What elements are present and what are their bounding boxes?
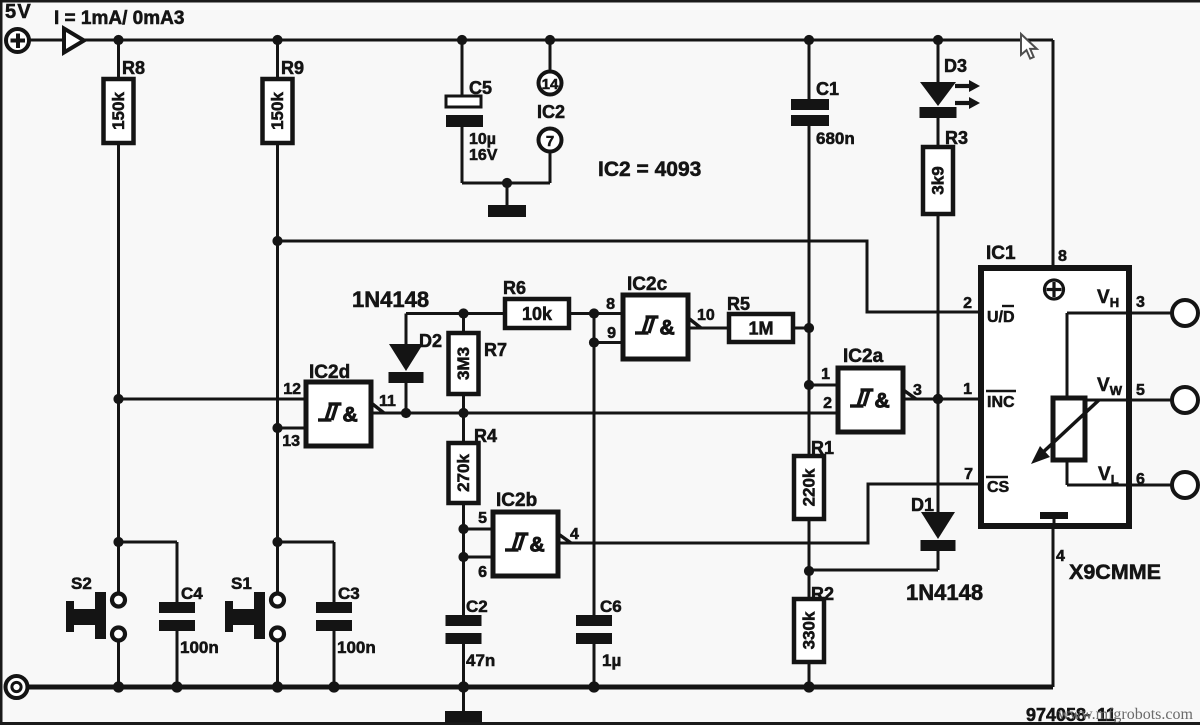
svg-text:5V: 5V	[5, 1, 32, 23]
svg-text:8: 8	[606, 296, 615, 313]
svg-text:R5: R5	[727, 294, 750, 314]
svg-text:1: 1	[963, 381, 972, 398]
svg-text:10: 10	[697, 307, 715, 324]
svg-text:3: 3	[1136, 294, 1145, 311]
svg-text:INC: INC	[987, 394, 1015, 411]
svg-text:www.mfgrobots.com: www.mfgrobots.com	[1058, 706, 1194, 723]
svg-text:D1: D1	[911, 495, 934, 515]
svg-text:IC2c: IC2c	[627, 274, 668, 295]
svg-text:47n: 47n	[466, 651, 495, 670]
svg-text:&: &	[530, 534, 545, 557]
svg-text:IC1: IC1	[986, 243, 1016, 264]
svg-text:5: 5	[478, 510, 487, 527]
svg-text:C3: C3	[338, 584, 360, 603]
svg-text:3: 3	[913, 382, 922, 399]
svg-text:3k9: 3k9	[929, 166, 948, 194]
svg-text:R3: R3	[945, 128, 968, 148]
svg-text:4: 4	[570, 526, 579, 543]
svg-text:IC2d: IC2d	[309, 362, 350, 383]
svg-text:10µ: 10µ	[469, 131, 496, 148]
svg-text:S2: S2	[71, 574, 92, 593]
svg-text:1N4148: 1N4148	[906, 580, 983, 605]
svg-text:100n: 100n	[337, 638, 376, 657]
svg-text:C5: C5	[469, 78, 492, 98]
svg-text:D3: D3	[944, 56, 967, 76]
svg-text:270k: 270k	[454, 454, 473, 492]
svg-text:S1: S1	[231, 574, 252, 593]
svg-text:R6: R6	[503, 278, 526, 298]
svg-text:16V: 16V	[469, 147, 498, 164]
svg-text:330k: 330k	[800, 611, 819, 649]
svg-text:8: 8	[1058, 248, 1067, 265]
svg-text:C6: C6	[600, 597, 622, 616]
svg-text:D2: D2	[419, 331, 442, 351]
svg-text:10k: 10k	[522, 304, 553, 324]
svg-text:6: 6	[478, 564, 487, 581]
svg-text:220k: 220k	[800, 468, 819, 506]
svg-text:12: 12	[283, 381, 301, 398]
svg-text:&: &	[660, 317, 675, 340]
svg-text:IC2a: IC2a	[843, 346, 884, 367]
svg-text:14: 14	[542, 76, 559, 93]
svg-text:&: &	[343, 404, 358, 427]
svg-text:R9: R9	[281, 58, 304, 78]
svg-text:R8: R8	[122, 58, 145, 78]
svg-text:150k: 150k	[109, 92, 128, 130]
svg-text:I = 1mA/ 0mA3: I = 1mA/ 0mA3	[54, 8, 184, 29]
svg-text:680n: 680n	[816, 129, 855, 148]
svg-text:CS: CS	[987, 479, 1010, 496]
svg-text:IC2: IC2	[537, 102, 565, 122]
svg-text:IC2 = 4093: IC2 = 4093	[598, 158, 701, 181]
svg-text:1N4148: 1N4148	[352, 287, 429, 312]
svg-text:2: 2	[963, 295, 972, 312]
svg-text:C1: C1	[816, 79, 839, 99]
svg-text:R2: R2	[811, 584, 834, 604]
svg-text:U/D: U/D	[987, 309, 1015, 326]
svg-text:C2: C2	[466, 597, 488, 616]
svg-text:3M3: 3M3	[454, 347, 473, 380]
svg-text:11: 11	[379, 393, 396, 410]
svg-text:150k: 150k	[268, 92, 287, 130]
svg-text:7: 7	[964, 466, 973, 483]
svg-text:C4: C4	[181, 584, 203, 603]
svg-text:100n: 100n	[180, 638, 219, 657]
svg-text:4: 4	[1056, 548, 1065, 565]
svg-text:9: 9	[607, 325, 616, 342]
svg-text:R1: R1	[811, 438, 834, 458]
svg-text:1µ: 1µ	[602, 651, 621, 670]
svg-text:7: 7	[546, 133, 554, 150]
svg-text:X9CMME: X9CMME	[1069, 560, 1161, 584]
svg-text:R4: R4	[474, 426, 497, 446]
svg-text:2: 2	[823, 395, 832, 412]
svg-text:1M: 1M	[748, 319, 773, 339]
svg-text:&: &	[875, 390, 890, 413]
svg-text:1: 1	[821, 366, 830, 383]
svg-text:IC2b: IC2b	[496, 490, 537, 511]
svg-text:13: 13	[282, 433, 300, 450]
svg-text:R7: R7	[484, 340, 507, 360]
svg-text:5: 5	[1136, 382, 1145, 399]
